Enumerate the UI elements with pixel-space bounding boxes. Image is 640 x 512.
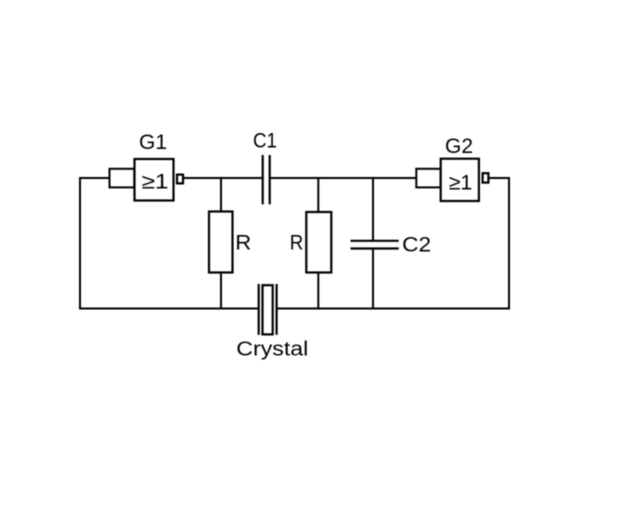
- resistor R1: [209, 212, 233, 273]
- svg-text:G2: G2: [445, 135, 473, 158]
- op-amp gate G2: [416, 159, 488, 201]
- wire: C2 bottom lead: [372, 249, 374, 310]
- wire: R2 bottom lead: [317, 272, 319, 309]
- svg-text:≥1: ≥1: [142, 171, 169, 194]
- wire: G2 output to right rail: [489, 177, 510, 179]
- svg-text:R: R: [290, 231, 304, 254]
- wire: right rail: [508, 178, 510, 309]
- op-amp gate G1: [110, 159, 184, 201]
- svg-text:≥1: ≥1: [449, 171, 473, 194]
- svg-text:C2: C2: [402, 233, 431, 256]
- resistor R2: [306, 212, 331, 273]
- wire: R2 top lead: [317, 178, 319, 213]
- capacitor C1: [263, 155, 270, 204]
- wire: bottom rail right of crystal: [277, 308, 510, 310]
- capacitor C2: [351, 241, 399, 249]
- crystal X1: [259, 284, 277, 335]
- wire: R1 top lead: [220, 178, 222, 212]
- svg-text:C1: C1: [253, 129, 277, 152]
- wire: top-left segment to G1 input: [79, 177, 110, 179]
- wire: G1 output to node A: [184, 177, 263, 179]
- wire: R1 bottom lead: [220, 272, 222, 309]
- svg-text:G1: G1: [139, 131, 167, 154]
- wire: bottom rail left of crystal: [79, 308, 259, 310]
- wire: C2 top lead: [372, 178, 374, 241]
- svg-text:Crystal: Crystal: [236, 339, 308, 361]
- wire: left rail: [79, 178, 81, 309]
- svg-text:R: R: [235, 231, 251, 254]
- wire: node A to G2 input: [270, 177, 417, 179]
